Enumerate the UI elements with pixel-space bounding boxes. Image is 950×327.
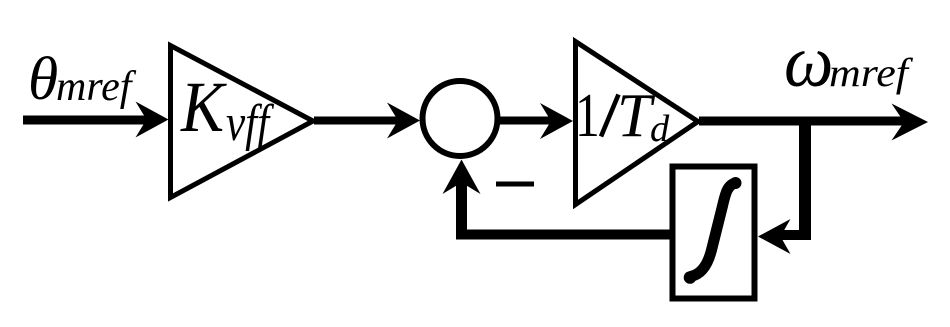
arrowhead into summer (387, 103, 420, 139)
svg-text:θ: θ (28, 45, 58, 113)
arrowhead into K block (136, 102, 169, 138)
svg-text:d: d (650, 108, 670, 150)
label K_vff (180, 67, 274, 152)
label omega_mref (784, 20, 914, 102)
wire riser (456, 178, 467, 235)
svg-text:ω: ω (784, 20, 833, 102)
svg-text:mref: mref (829, 52, 914, 96)
summing junction (423, 81, 498, 156)
arrowhead into integrator (758, 219, 791, 254)
svg-text:vff: vff (226, 94, 274, 152)
wire feedback to integrator (780, 230, 811, 240)
integrator block (673, 167, 755, 299)
wire output (699, 117, 906, 126)
svg-text:K: K (180, 67, 227, 147)
wire integrator to riser (456, 230, 673, 240)
arrowhead output (892, 104, 929, 141)
gain block K_vff (triangle) (171, 46, 314, 198)
integral sign (684, 177, 742, 284)
arrowhead into 1/Td block (540, 103, 573, 139)
wire summer to 1/Td (498, 117, 551, 125)
wire input (23, 116, 148, 125)
arrowhead into summer bottom (443, 160, 481, 195)
label 1/Td (575, 82, 670, 151)
wire feedback drop (799, 121, 811, 240)
gain block 1/Td (triangle) (576, 42, 699, 205)
label theta_mref (28, 45, 137, 113)
wire K to summer (314, 117, 398, 125)
svg-text:mref: mref (56, 64, 137, 110)
minus sign (496, 182, 534, 187)
svg-text:1: 1 (575, 82, 600, 150)
